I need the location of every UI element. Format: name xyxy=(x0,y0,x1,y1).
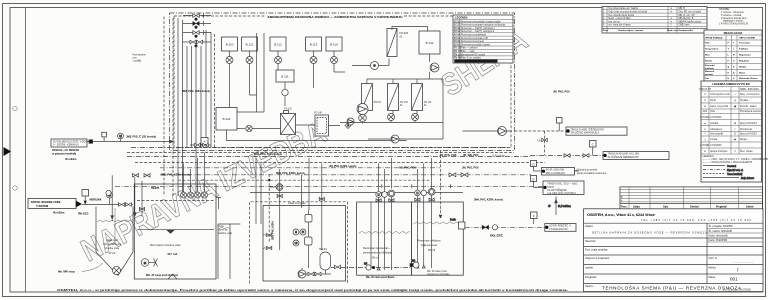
svg-text:Jašek za črpalke: Jašek za črpalke xyxy=(288,202,306,205)
pipe run y158 xyxy=(127,155,530,157)
svg-text:protokol: protokol xyxy=(710,122,719,125)
instrument box B110 xyxy=(222,37,238,51)
instrument QI on feed xyxy=(118,133,124,141)
svg-text:B 104: B 104 xyxy=(454,34,461,37)
inlet valve column xyxy=(183,13,211,47)
svg-text:C-PODR.: C-PODR. xyxy=(700,117,710,119)
svg-text:Izol. do vol: Izol. do vol xyxy=(609,21,620,23)
RO container inner dashed border xyxy=(174,16,511,148)
svg-text:ZA ČIŠČENJE MEMBRAN RO: ZA ČIŠČENJE MEMBRAN RO xyxy=(608,156,639,159)
pipe run y175 xyxy=(160,174,531,176)
LEGENDA SIMBOLOV table xyxy=(699,81,768,182)
svg-text:TRASA ZA KISLINO, HCL 30%: TRASA ZA KISLINO, HCL 30% xyxy=(608,153,640,156)
svg-text:Rezervoar užiščena: Rezervoar užiščena xyxy=(418,239,441,243)
svg-text:E: E xyxy=(532,177,534,181)
svg-text:— — — TRASA ZAČASNA, LOKACIJA: — — — TRASA ZAČASNA, LOKACIJA ELEKTR. xyxy=(703,161,754,164)
svg-text:Merjen: Merjen xyxy=(740,138,748,141)
svg-text:▽: ▽ xyxy=(704,133,706,136)
svg-text:Rezervoar za permeat: Rezervoar za permeat xyxy=(461,40,484,43)
pump P130 xyxy=(352,59,389,70)
svg-text:Izdelal: Izdelal xyxy=(746,206,754,209)
valve row 3 xyxy=(183,30,211,37)
instrument box B112 xyxy=(270,37,286,51)
unit B122 xyxy=(216,108,237,131)
wire B121 to B122 xyxy=(230,33,265,112)
svg-text:Rezervoar za začitje (izpust): Rezervoar za začitje (izpust) xyxy=(461,43,490,46)
instrument box B104 xyxy=(326,37,342,51)
top right label box xyxy=(515,118,628,136)
svg-text:Hidrofor: Hidrofor xyxy=(319,248,327,251)
svg-text:Pripravljena oprema: Pripravljena oprema xyxy=(740,110,761,113)
svg-text:MF1-L1-IZVIRALO: MF1-L1-IZVIRALO xyxy=(546,172,565,175)
svg-text:B 112: B 112 xyxy=(274,43,282,47)
cartridge filter FN302 xyxy=(387,29,409,57)
E label box xyxy=(543,181,584,195)
svg-text:3M3, PVG, KZR4, konoly: 3M3, PVG, KZR4, konoly xyxy=(161,173,191,176)
svg-text:⊗: ⊗ xyxy=(704,105,706,108)
svg-text:Spoj za DN EXX: Spoj za DN EXX xyxy=(740,134,757,136)
svg-text:.............................: ............................. xyxy=(733,261,754,264)
svg-text:▼: ▼ xyxy=(670,7,672,10)
svg-text:v pošiljki: v pošiljki xyxy=(133,61,142,63)
svg-text:DOTOK MED DOV.ČIŠČ. V-DOZ.: DOTOK MED DOV.ČIŠČ. V-DOZ. xyxy=(53,140,88,143)
svg-text:Štev. vztoka: Štev. vztoka xyxy=(740,150,753,153)
svg-text:FS 131: FS 131 xyxy=(284,109,292,111)
svg-text:LEGENDA SIMBOLOV PO EN: LEGENDA SIMBOLOV PO EN xyxy=(712,82,749,86)
svg-text:L R NIVO STIKALA-NIVOJA.: L R NIVO STIKALA-NIVOJA. xyxy=(719,23,749,26)
svg-text:ODTOK PREČIŠČ. V.: ODTOK PREČIŠČ. V. xyxy=(549,224,572,227)
svg-text:RW, BCG: RW, BCG xyxy=(78,213,89,216)
wire top manifold xyxy=(392,27,428,32)
overflow notch Preliv xyxy=(450,219,465,230)
svg-text:P dovoda in odvoda kem.,: P dovoda in odvoda kem., xyxy=(721,18,748,20)
valves on run175 left xyxy=(133,174,151,178)
outlet instrument xyxy=(492,225,497,230)
permeate side pump xyxy=(410,261,419,269)
svg-text:— — — VODI - CEV ZA VODO, CT: — — — VODI - CEV ZA VODO, CT - VODILO - … xyxy=(703,158,768,161)
svg-text:OBB, beze: OBB, beze xyxy=(679,25,691,27)
circulation pump right xyxy=(463,127,513,136)
pump P121 xyxy=(246,51,253,95)
svg-text:3M4, PVG, KZR4, konoly: 3M4, PVG, KZR4, konoly xyxy=(474,199,504,202)
pump pit dashed enclosure xyxy=(250,202,348,284)
svg-text:ENERGOPREMA REVERZNA OSMOZA: ENERGOPREMA REVERZNA OSMOZA — KOMPAKTNA … xyxy=(268,15,403,19)
drop pipes to pump pit xyxy=(280,158,322,250)
svg-text:Odgovorni projektant:: Odgovorni projektant: xyxy=(585,256,610,260)
permeate tank xyxy=(412,202,464,276)
svg-text:Odty. beky za p.prov zvodku od: Odty. beky za p.prov zvodku od ovboji xyxy=(609,11,648,14)
wire collector xyxy=(227,130,407,141)
svg-text:▽: ▽ xyxy=(670,24,672,27)
wire lower run with pump xyxy=(368,135,443,143)
svg-text:Indikator: Indikator xyxy=(739,48,748,51)
svg-text:Alarm: Alarm xyxy=(739,71,745,74)
valve row 4 xyxy=(183,40,211,47)
feed pump left xyxy=(347,118,354,125)
svg-text:preusmeritev po filtriranju: preusmeritev po filtriranju xyxy=(363,251,393,255)
notes text block xyxy=(719,9,749,26)
svg-text:Črpalka: Črpalka xyxy=(740,99,749,102)
svg-text:Motnost/: Motnost/ xyxy=(705,70,715,73)
svg-text:TEHNOLOŠKA SHEMA (P&I) —: TEHNOLOŠKA SHEMA (P&I) — REVERZNA OSMOZA xyxy=(602,284,742,290)
valve on C line xyxy=(564,154,589,158)
valves on pit drops xyxy=(277,194,324,200)
svg-text:001: 001 xyxy=(730,277,738,282)
svg-text:regulacija in nadzor,: regulacija in nadzor, xyxy=(723,20,744,23)
svg-text:PI: PI xyxy=(302,232,305,234)
svg-text:Faza: PGD/PZR: Faza: PGD/PZR xyxy=(709,238,728,242)
inlet metering run xyxy=(82,190,133,207)
bundle outlet valves xyxy=(190,143,211,146)
drop pipes to retentate tank xyxy=(379,158,392,192)
permeate instruments xyxy=(415,189,435,196)
svg-text:Računska. Ročno: Računska. Ročno xyxy=(739,77,758,80)
valves on retentate drops xyxy=(376,199,394,202)
pit outlet dashed xyxy=(331,267,412,269)
outlet valve black xyxy=(482,225,488,229)
pipe run y147 xyxy=(131,147,509,149)
wire filters xyxy=(252,125,340,129)
svg-text:B 110: B 110 xyxy=(226,43,234,47)
svg-text:Cevovod: Cevovod xyxy=(727,166,737,168)
left binding strip line xyxy=(25,8,27,293)
svg-text:C-POVRAT: C-POVRAT xyxy=(710,144,722,147)
svg-text:zbirnim bazenom: zbirnim bazenom xyxy=(103,243,121,246)
svg-text:V KANALIZACIJO: V KANALIZACIJO xyxy=(549,228,568,231)
svg-text:⇅: ⇅ xyxy=(734,133,736,136)
svg-text:▲: ▲ xyxy=(704,122,706,125)
pump circle on line xyxy=(246,125,252,131)
svg-text:BIOL.ČIŠČ.: BIOL.ČIŠČ. xyxy=(490,235,504,238)
svg-text:V - SISTEM - KEMIKALIJ: V - SISTEM - KEMIKALIJ xyxy=(53,144,79,147)
svg-text:B 113: B 113 xyxy=(454,31,461,33)
svg-text:LEGENDA: LEGENDA xyxy=(455,16,468,20)
svg-text:Rezervoar za pripravo CIP: Rezervoar za pripravo CIP xyxy=(461,37,489,40)
svg-text:Nov odvodk izpust bazde: Nov odvodk izpust bazde xyxy=(609,14,635,17)
membrane vessel FN301 xyxy=(361,84,381,111)
svg-text:JM, PVG, KZR4, konoly: JM, PVG, KZR4, konoly xyxy=(329,165,357,168)
svg-text:rez. mera fori.s bazan: rez. mera fori.s bazan xyxy=(609,24,632,27)
svg-text:◾: ◾ xyxy=(704,150,707,153)
svg-text:Min. 25 varen prost Bazen: Min. 25 varen prost Bazen xyxy=(366,276,395,279)
svg-text:Filter — oglje: Filter — oglje xyxy=(461,50,475,53)
pump P112 xyxy=(275,51,282,70)
svg-text:LEGENDA:: LEGENDA: xyxy=(703,155,715,158)
pit instrument PI xyxy=(300,229,306,235)
parts list table top xyxy=(602,7,707,34)
svg-text:Simb. ozn.: Simb. ozn. xyxy=(667,30,678,32)
svg-text:Proj. vodja projekta:: Proj. vodja projekta: xyxy=(585,248,608,252)
svg-text:APK: APK xyxy=(703,110,708,113)
svg-text:niha nadodki: niha nadodki xyxy=(710,134,724,136)
inlet label box DOVAJANJE xyxy=(51,139,88,161)
svg-text:Pretoka poz: Pretoka poz xyxy=(740,128,753,131)
svg-text:cevi: cevi xyxy=(133,58,138,60)
svg-text:Pregledal: Pregledal xyxy=(716,206,727,209)
svg-text:Nadz. - poviz.od filtan: Nadz. - poviz.od filtan xyxy=(609,17,632,20)
svg-text:ZA CIP ČIŠČENJE: ZA CIP ČIŠČENJE xyxy=(547,189,567,192)
svg-text:Spoj za DN EXX: Spoj za DN EXX xyxy=(740,123,757,125)
left pit tank xyxy=(58,207,133,276)
svg-text:AB, PVG, FGB: AB, PVG, FGB xyxy=(440,154,457,157)
drop pipe to big tank xyxy=(134,177,143,216)
svg-text:iz časa: iz časa xyxy=(710,139,718,141)
svg-text:40 m3/len: 40 m3/len xyxy=(53,212,65,215)
svg-text:zadržev. vode: zadržev. vode xyxy=(218,232,233,235)
svg-text:7M4/7B: 7M4/7B xyxy=(151,187,159,190)
chem tank small 1 xyxy=(305,210,312,222)
pipe run y180 xyxy=(178,179,430,181)
connector square D xyxy=(531,161,542,172)
pit feed dashed drop xyxy=(263,174,283,250)
svg-text:zagotovi se pročrpalje: zagotovi se pročrpalje xyxy=(427,273,450,276)
svg-text:Iztok: Iztok xyxy=(710,110,716,113)
svg-text:Posoda - aparat: Posoda - aparat xyxy=(740,105,757,108)
svg-text:Karakteristike: Karakteristike xyxy=(679,29,694,32)
line to C xyxy=(530,154,603,156)
valve row 1 xyxy=(183,13,211,20)
sand filter FS131 xyxy=(281,109,296,135)
svg-text:MB, B: MB, B xyxy=(679,8,686,10)
diamond check xyxy=(345,123,351,129)
valve on run175 b xyxy=(461,173,468,177)
membrane vessel FN311 xyxy=(388,84,409,111)
dosing unit B111 xyxy=(276,70,294,82)
wire membrane collector xyxy=(340,121,443,124)
svg-text:REGULACIJA: REGULACIJA xyxy=(724,31,744,35)
svg-text:glede na kvaliteto sedimenta: glede na kvaliteto sedimenta xyxy=(577,172,607,175)
connector square A xyxy=(201,138,208,145)
svg-text:B 110: B 110 xyxy=(454,21,461,23)
svg-text:Oznaka najtisa - oprema: Oznaka najtisa - oprema xyxy=(618,29,644,32)
pipe run y188 xyxy=(115,185,545,187)
ODTOK label box xyxy=(545,224,576,232)
svg-text:3M3, PVG, 4004, konoly: 3M3, PVG, 4004, konoly xyxy=(254,153,283,156)
svg-text:LI: LI xyxy=(416,193,418,195)
svg-text:B 122: B 122 xyxy=(454,41,461,43)
svg-text:Povezovalne: Povezovalne xyxy=(133,55,147,57)
svg-text:Pozn.: Pozn. xyxy=(603,30,609,32)
svg-text:QI: QI xyxy=(119,136,122,138)
svg-text:Izdaja: Izdaja xyxy=(633,206,640,209)
svg-text:Lok. KEM ČIŠČ. POSTROJ.: Lok. KEM ČIŠČ. POSTROJ. xyxy=(547,192,576,195)
pump PM3 xyxy=(412,111,419,121)
svg-text:Pretok: Pretok xyxy=(705,59,713,62)
svg-text:Rezervoar za antiskalant: Rezervoar za antiskalant xyxy=(461,34,487,37)
outlet line to sewer xyxy=(465,226,545,228)
pit valves bottom xyxy=(306,270,331,276)
svg-text:Min. 25 varen prost.: Min. 25 varen prost. xyxy=(427,270,448,273)
svg-text:Filter 5 um, zaščitni: Filter 5 um, zaščitni xyxy=(461,57,481,60)
pipe run y169 xyxy=(160,167,440,169)
svg-text:▣: ▣ xyxy=(734,105,736,108)
svg-text:Preliv: Preliv xyxy=(450,219,457,222)
svg-text:Spojna črtočrpan: Spojna črtočrpan xyxy=(710,150,728,153)
svg-text:F: F xyxy=(533,214,535,218)
svg-text:MERILNIK: MERILNIK xyxy=(90,198,102,201)
svg-text:3M3, PVG, KZR4: 3M3, PVG, KZR4 xyxy=(272,221,275,240)
instrument box B113 xyxy=(306,37,322,51)
mixer diamond xyxy=(282,82,288,106)
E outlet stub xyxy=(548,197,571,216)
svg-text:Rezervoar — NaOCl, raztopina 1: Rezervoar — NaOCl, raztopina 1 xyxy=(461,27,495,30)
svg-text:T vzorčno - odvzemno: T vzorčno - odvzemno xyxy=(721,11,744,14)
svg-text:Rezervoar za kemikalije čnapin: Rezervoar za kemikalije čnapino bažke xyxy=(461,20,502,23)
wire B122 outlet xyxy=(237,128,245,130)
svg-text:▼: ▼ xyxy=(670,17,672,20)
svg-text:B 122: B 122 xyxy=(223,117,231,121)
svg-text:Nivo: Nivo xyxy=(705,55,710,57)
svg-text:AB, PVG, PG6: AB, PVG, PG6 xyxy=(399,167,416,170)
svg-text:Min. NPK vstop: Min. NPK vstop xyxy=(58,271,75,274)
title block xyxy=(584,209,763,292)
svg-text:Nov dovod tanke od r zaščito: Nov dovod tanke od r zaščito xyxy=(609,7,639,10)
svg-text:3M3, PVG, 4004, konoly: 3M3, PVG, 4004, konoly xyxy=(182,90,211,93)
svg-text:▼: ▼ xyxy=(704,128,706,131)
svg-text:Membranski RO moduli: Membranski RO moduli xyxy=(461,53,485,56)
svg-text:št.n. 001, 1/1a, Tol-07/0000: št.n. 001, 1/1a, Tol-07/0000 xyxy=(723,289,752,292)
drop pipes to permeate tank xyxy=(417,158,431,190)
RO container battery limit (dash-dot) xyxy=(170,13,515,151)
svg-text:TRASA ZA KEM. ČIŠČENJE RO: TRASA ZA KEM. ČIŠČENJE RO xyxy=(571,128,605,131)
svg-text:MB, br, opr., SP: MB, br, opr., SP xyxy=(679,14,696,17)
wire membrane manifold xyxy=(367,72,443,139)
svg-text:TRASA KONC. SOLI — NaCl: TRASA KONC. SOLI — NaCl xyxy=(547,183,577,186)
pipe run y192 xyxy=(250,192,463,194)
inlet label DOTOK xyxy=(28,199,82,215)
mixer M xyxy=(141,259,157,267)
svg-text:▼: ▼ xyxy=(670,11,672,14)
retentate internal pipes xyxy=(371,197,391,270)
svg-text:Registrator: Registrator xyxy=(739,54,751,57)
svg-text:Občasno-po potrebi: Občasno-po potrebi xyxy=(577,169,598,172)
svg-text:Meja dobave: Meja dobave xyxy=(741,178,755,180)
REGULACIJA table xyxy=(704,30,762,81)
svg-text:in priprava kemikalij: in priprava kemikalij xyxy=(52,152,76,155)
svg-text:DOTOK IZCEDNE VODE: DOTOK IZCEDNE VODE xyxy=(31,200,61,204)
retentate tank xyxy=(357,202,412,279)
hydrophore xyxy=(320,252,331,270)
svg-text:kvaliteta: kvaliteta xyxy=(705,67,715,70)
svg-text:bazen za: bazen za xyxy=(218,230,228,232)
connector square F xyxy=(531,212,538,224)
svg-text:◉: ◉ xyxy=(734,138,736,141)
svg-text:Rezervoar — NaOH, raztopina 2: Rezervoar — NaOH, raztopina 2 xyxy=(461,30,495,33)
right label box 2 xyxy=(603,152,669,160)
connector square C xyxy=(590,141,597,156)
drop pipes to overflow chamber xyxy=(256,158,261,224)
pit instrument LS xyxy=(293,240,299,246)
svg-text:Filter — peščeni: Filter — peščeni xyxy=(461,47,478,50)
valve on run175 xyxy=(449,173,456,177)
svg-text:Vlož. št.:: Vlož. št.: xyxy=(709,256,719,260)
svg-text:OBTOJ ODJME: OBTOJ ODJME xyxy=(739,37,755,39)
svg-text:gostota: gostota xyxy=(705,73,714,76)
svg-text:FN 10x: FN 10x xyxy=(424,102,432,104)
svg-text:B 113: B 113 xyxy=(310,43,318,47)
svg-text:VRSTA SIGNALA: VRSTA SIGNALA xyxy=(705,36,723,39)
D label box xyxy=(542,168,607,176)
svg-text:40 m3: 40 m3 xyxy=(109,252,116,255)
instrument at pit xyxy=(106,190,111,195)
valves on permeate drops xyxy=(415,198,434,201)
supply bundle dashed lines xyxy=(164,17,215,197)
svg-text:SIMB - ZAP.ČRKA: SIMB - ZAP.ČRKA xyxy=(740,88,759,91)
carbon filter FO140 xyxy=(314,113,328,137)
svg-text:Zbirni bazen Izcedne vode: Zbirni bazen Izcedne vode xyxy=(150,243,181,247)
svg-text:Objekt:: Objekt: xyxy=(585,224,593,228)
revision table xyxy=(620,187,762,210)
svg-text:⏎: ⏎ xyxy=(734,150,736,153)
submersible pumps xyxy=(181,192,208,198)
svg-text:3M3, PVG, Č (JB, konoly): 3M3, PVG, Č (JB, konoly) xyxy=(126,136,156,139)
svg-text:7N/7X1: 7N/7X1 xyxy=(373,102,381,104)
pit pump triangle xyxy=(298,268,306,278)
pump P113 xyxy=(310,51,317,88)
high pressure pump xyxy=(357,104,368,115)
valve row 2 xyxy=(183,21,211,28)
fold mark circle lower xyxy=(13,186,17,190)
svg-text:31,5 m3/dan: 31,5 m3/dan xyxy=(558,206,571,208)
valve on big tank drop xyxy=(139,205,144,216)
svg-text:B 111: B 111 xyxy=(281,75,289,79)
drop pipes to big tank pumps xyxy=(184,153,205,193)
svg-text:Stikalo: Stikalo xyxy=(739,65,747,68)
svg-text:DETILNA NAPRAVA ZA DOSEDNO: DETILNA NAPRAVA ZA DOSEDNO VODE — REVERZ… xyxy=(592,231,707,235)
svg-text:JM, PVG, PG6: JM, PVG, PG6 xyxy=(462,167,479,170)
svg-text:OSMTEH, d.o.o., Vrbce 41 c,: OSMTEH, d.o.o., Vrbce 41 c, 6244 Vrbce xyxy=(587,212,656,217)
svg-text:Opis: Opis xyxy=(663,206,669,209)
svg-text:C-PODR.: C-PODR. xyxy=(700,145,710,147)
svg-text:Q: Q xyxy=(728,66,730,68)
svg-text:JR, WR, PVG: JR, WR, PVG xyxy=(463,154,478,157)
svg-text:3M3, PVG, KZR4, konoly: 3M3, PVG, KZR4, konoly xyxy=(276,172,306,175)
svg-text:Ventil: Ventil xyxy=(710,99,716,102)
instrument box B121 xyxy=(242,37,258,51)
membrane vessel FN321 xyxy=(412,84,433,111)
svg-text:Merilo:: Merilo: xyxy=(709,265,717,269)
svg-text:B 102: B 102 xyxy=(454,44,461,46)
svg-text:△: △ xyxy=(704,138,706,141)
svg-text:FO 140: FO 140 xyxy=(314,113,322,115)
legend highlight bar xyxy=(455,60,498,63)
svg-text:Naročnik:: Naročnik: xyxy=(585,239,596,243)
svg-text:Signalni vod, el.: Signalni vod, el. xyxy=(727,170,744,172)
svg-text:Rezervoar za pripravo raztopin: Rezervoar za pripravo raztopine za filtr… xyxy=(461,24,506,27)
svg-text:Omskal: Omskal xyxy=(690,206,699,209)
svg-text:LS: LS xyxy=(295,243,298,245)
pump PM2 xyxy=(388,111,395,121)
permeate internal pipes xyxy=(416,195,432,268)
container title backing xyxy=(266,14,404,19)
svg-text:Jašek pred: Jašek pred xyxy=(106,239,118,242)
collection basin tank xyxy=(134,184,216,279)
drop pipe to pit tank xyxy=(111,175,114,221)
svg-text:B 121: B 121 xyxy=(454,25,461,27)
svg-text:Temperatura: Temperatura xyxy=(705,48,719,51)
svg-text:B 111: B 111 xyxy=(454,38,461,40)
svg-text:Načrt: tehnološki: Načrt: tehnološki xyxy=(709,234,729,238)
RO unit B102 xyxy=(419,31,440,54)
supply pipe bundle (vertical lines) xyxy=(178,18,211,196)
retentate instruments xyxy=(376,190,395,197)
pump PM1 xyxy=(359,114,367,122)
svg-text:✓: ✓ xyxy=(734,128,736,131)
pit pump xyxy=(113,267,121,275)
permeate drop dashed xyxy=(439,151,442,219)
svg-text:RO-IP LINIJA NIH: RO-IP LINIJA NIH xyxy=(546,169,565,172)
svg-text:Transmiter: Transmiter xyxy=(739,42,750,45)
